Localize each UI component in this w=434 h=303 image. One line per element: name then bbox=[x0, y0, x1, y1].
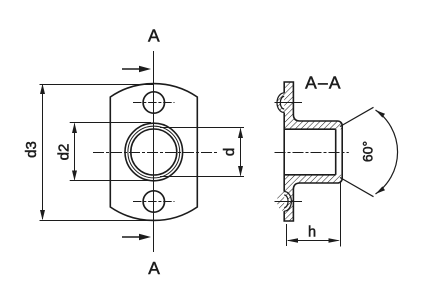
countersink edge at mouth bbox=[335, 129, 337, 175]
h dimension line bbox=[288, 240, 339, 242]
svg-text:A–A: A–A bbox=[305, 72, 341, 92]
dimension d: extension lines bbox=[160, 128, 244, 177]
hatched lower region (flange strip + barrel bottom wall) bbox=[277, 175, 342, 221]
svg-text:d3: d3 bbox=[23, 141, 40, 158]
d3 dimension line bbox=[42, 85, 44, 219]
dimension d3: extension lines bbox=[40, 85, 154, 221]
dimension d2: extension lines bbox=[70, 123, 151, 181]
svg-text:A: A bbox=[148, 258, 160, 278]
barrel outline bbox=[284, 121, 342, 183]
60deg arc bbox=[376, 110, 398, 194]
section arrow bottom bbox=[122, 236, 144, 238]
arc arrowheads bbox=[376, 110, 386, 118]
svg-text:60°: 60° bbox=[359, 141, 375, 162]
svg-text:d: d bbox=[221, 148, 238, 156]
h arrows bbox=[287, 238, 299, 242]
section line A-A (vertical centerline) bbox=[153, 51, 155, 252]
flange left face through bore bbox=[283, 113, 285, 192]
C-bump inner arc bottom bbox=[284, 195, 288, 208]
60deg cone line bottom bbox=[340, 178, 374, 197]
small hole bottom bbox=[143, 191, 164, 212]
part outline (obround with arc top/bottom) bbox=[110, 84, 197, 221]
flange outline bottom tab bbox=[284, 183, 300, 221]
barrel top outer edge + end cap bbox=[300, 121, 342, 183]
hatched upper region (flange strip + barrel top wall) bbox=[277, 82, 342, 129]
small hole top centerline bbox=[133, 102, 175, 104]
tab centerline top bbox=[275, 102, 303, 104]
thread minor dia (bold) bbox=[131, 129, 177, 175]
svg-text:A: A bbox=[148, 26, 160, 46]
section main centerline bbox=[275, 152, 349, 154]
d3 arrows bbox=[40, 84, 45, 94]
h dimension extension lines bbox=[287, 183, 341, 247]
bore bottom line bbox=[284, 174, 336, 176]
C-bump outer arc bottom bbox=[284, 192, 291, 212]
svg-text:h: h bbox=[308, 225, 316, 241]
d dimension line bbox=[240, 129, 242, 176]
d2 arrows bbox=[72, 123, 77, 133]
central circles: collar OD (bold) bbox=[125, 123, 183, 181]
d arrows bbox=[238, 128, 243, 138]
svg-text:d2: d2 bbox=[56, 144, 73, 161]
small hole bottom centerline bbox=[133, 201, 175, 203]
flange outline top tab bbox=[284, 82, 300, 221]
small hole top bbox=[143, 92, 164, 113]
tab centerline bottom bbox=[275, 201, 303, 203]
bore top line bbox=[284, 128, 336, 130]
60deg cone line top bbox=[340, 107, 374, 126]
section arrow top bbox=[122, 68, 144, 70]
thread major dia (thin) bbox=[128, 126, 180, 178]
C-bump inner arc top bbox=[280, 96, 284, 109]
d2 dimension line bbox=[74, 124, 76, 180]
horizontal centerline of part bbox=[93, 152, 217, 154]
C-bump outer arc top bbox=[277, 93, 284, 113]
